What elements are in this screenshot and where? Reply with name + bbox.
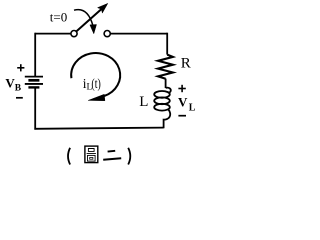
loop current arrow circle [71,53,120,101]
wire left vertical (bottom) [34,87,36,130]
svg-text:L: L [189,102,196,113]
caption open parenthesis [68,148,70,165]
label iL(t) [83,76,101,93]
svg-text:V: V [178,95,188,110]
battery VB plate long 2 [25,83,43,85]
battery minus sign [16,97,23,99]
switch blade with arrow [77,3,108,31]
caption character tu (figure) [85,146,98,163]
svg-text:t=0: t=0 [50,9,67,24]
resistor R zigzag [158,55,173,79]
svg-text:(t): (t) [91,76,100,91]
switch contact circle right [104,30,110,36]
inductor L coil [154,88,171,129]
battery VB plate short 2 [28,86,39,88]
wire right vertical (top) [166,33,168,55]
label VL [178,95,196,114]
svg-text:B: B [15,83,22,93]
svg-text:R: R [181,55,191,71]
battery VB plate long 1 [25,76,43,78]
caption character er (two) [103,151,121,160]
label VB [5,76,21,94]
inductor minus sign [178,115,186,117]
caption close parenthesis [128,148,130,165]
wire top-right horizontal [110,33,167,35]
wire top-left horizontal [35,33,70,35]
switch closing motion arc with arrow [74,10,97,34]
battery VB plate short 1 [28,79,39,82]
wire bottom horizontal [34,128,163,129]
battery plus sign [17,64,24,71]
inductor plus sign [178,85,185,92]
wire left vertical (top) [34,33,36,76]
wire resistor-to-inductor [165,79,167,88]
switch contact circle left [71,30,77,36]
svg-text:L: L [139,94,148,110]
